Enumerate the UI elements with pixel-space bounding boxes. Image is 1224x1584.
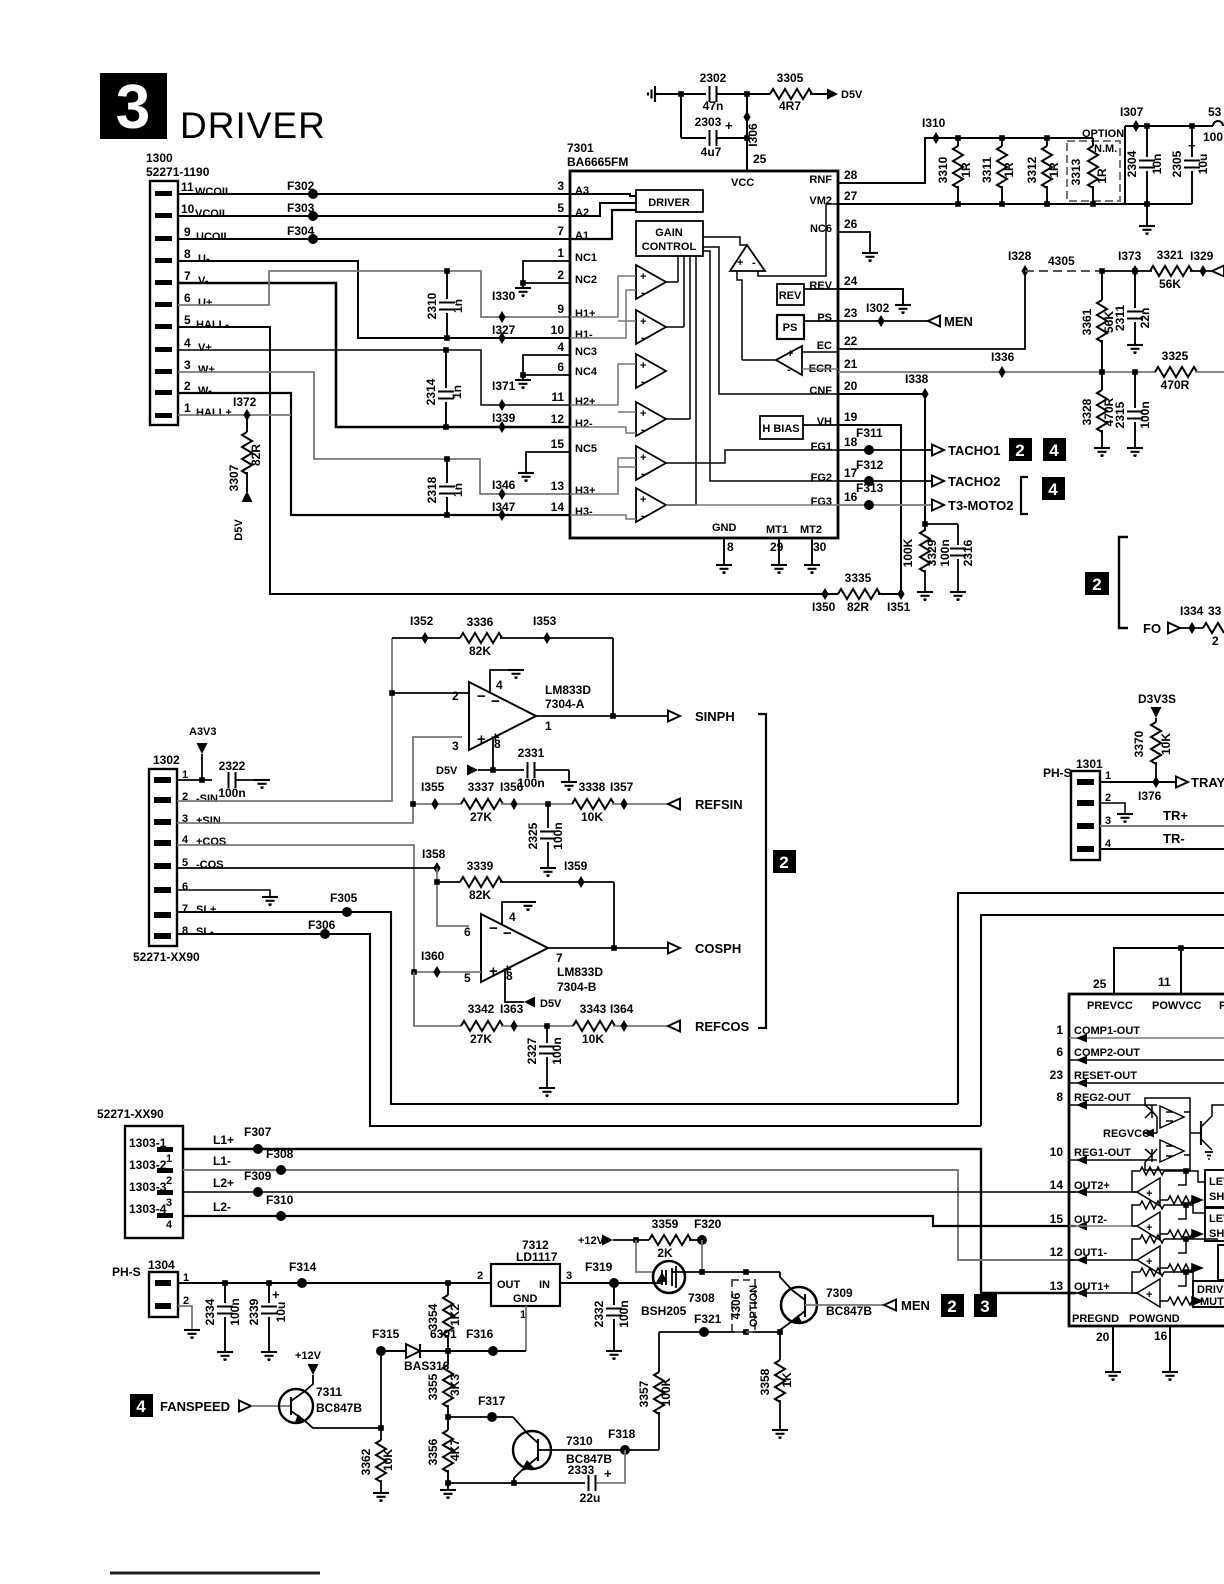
svg-text:H2-: H2-: [575, 418, 593, 430]
wire HALL+: [178, 414, 291, 416]
svg-text:100: 100: [1203, 130, 1223, 144]
LEVEL SHIFT box 1: [1205, 1170, 1224, 1207]
svg-text:3: 3: [116, 73, 150, 142]
svg-text:-: -: [752, 257, 756, 269]
marker 3: [974, 1294, 997, 1317]
node I306: [743, 111, 750, 123]
svg-text:I351: I351: [887, 600, 911, 614]
svg-text:SHI: SHI: [1209, 1191, 1224, 1203]
svg-text:2314: 2314: [424, 378, 438, 405]
capacitor 2314 1n: [445, 350, 447, 388]
svg-text:I358: I358: [422, 847, 446, 861]
CNF pin 20 wire down: [838, 394, 925, 524]
svg-text:3361: 3361: [1080, 308, 1094, 335]
svg-text:+: +: [640, 452, 646, 464]
svg-text:27K: 27K: [470, 1032, 492, 1046]
internal op-amp 3: [636, 354, 666, 388]
svg-text:PS: PS: [783, 322, 798, 334]
svg-text:11: 11: [551, 390, 564, 404]
svg-text:I334: I334: [1180, 604, 1204, 618]
svg-text:2302: 2302: [700, 71, 727, 85]
svg-text:8: 8: [1056, 1090, 1063, 1104]
svg-text:L1+: L1+: [213, 1133, 234, 1147]
SL+ wire: [177, 912, 958, 1104]
svg-text:52271-XX90: 52271-XX90: [133, 950, 200, 964]
svg-text:3343: 3343: [580, 1002, 607, 1016]
TR- wire: [1100, 848, 1224, 850]
svg-text:LM833D: LM833D: [545, 683, 591, 697]
svg-text:F305: F305: [330, 891, 358, 905]
svg-text:2331: 2331: [518, 746, 545, 760]
svg-text:+SIN: +SIN: [196, 815, 221, 827]
svg-text:-SIN: -SIN: [196, 793, 218, 805]
svg-text:I372: I372: [233, 395, 257, 409]
svg-text:NC4: NC4: [575, 366, 598, 378]
svg-text:LEV: LEV: [1209, 1213, 1224, 1225]
svg-text:A3: A3: [575, 185, 589, 197]
svg-text:DRIVER: DRIVER: [180, 105, 326, 146]
svg-text:OUT1-: OUT1-: [1074, 1247, 1107, 1259]
svg-text:10K: 10K: [581, 810, 603, 824]
NC5 ground: [526, 452, 570, 473]
F320 wire down to drain node: [701, 1240, 703, 1272]
resistor 3328 470R: [1101, 372, 1103, 390]
svg-text:10K: 10K: [381, 1449, 395, 1471]
supply D5V: [827, 89, 838, 100]
svg-text:2334: 2334: [203, 1298, 217, 1325]
supply +12V at 7311: [308, 1364, 319, 1375]
bracket TACHO2/T3-MOTO2: [1021, 477, 1028, 514]
VCC top rail: [1125, 125, 1213, 127]
wire W- to H3-: [178, 393, 570, 515]
svg-text:T3-MOTO2: T3-MOTO2: [948, 498, 1014, 513]
svg-text:H3+: H3+: [575, 485, 596, 497]
capacitor 2311 22n: [1134, 271, 1136, 308]
marker 4: [1043, 438, 1066, 461]
svg-text:VH: VH: [817, 416, 832, 428]
IC left pin names: [575, 185, 598, 518]
svg-text:9: 9: [184, 225, 191, 239]
svg-text:1: 1: [557, 246, 564, 260]
svg-text:52271-XX90: 52271-XX90: [97, 1107, 164, 1121]
pin1 wire to regulator: [178, 1282, 491, 1284]
internal op-amp 6: [636, 488, 666, 522]
internal op-amp 2: [636, 310, 666, 344]
OUT1- cell: [1069, 1235, 1218, 1274]
svg-text:7: 7: [184, 269, 191, 283]
svg-text:12: 12: [551, 412, 565, 426]
svg-text:10: 10: [551, 323, 565, 337]
resistor 3355 3K3: [443, 1365, 453, 1407]
right IC left pin numbers: [1050, 1023, 1064, 1293]
svg-text:MT1: MT1: [766, 524, 788, 536]
arrow at right edge: [1212, 266, 1224, 277]
svg-text:3321: 3321: [1157, 248, 1184, 262]
svg-text:3359: 3359: [652, 1217, 679, 1231]
capacitor 2315 100n: [1134, 372, 1136, 408]
svg-text:UCOIL: UCOIL: [196, 231, 231, 243]
A3V3 supply on pin 1: [177, 779, 212, 781]
svg-text:L1-: L1-: [213, 1154, 231, 1168]
svg-text:F315: F315: [372, 1327, 400, 1341]
svg-text:VCOIL: VCOIL: [195, 208, 229, 220]
svg-text:2: 2: [557, 268, 564, 282]
svg-text:−: −: [503, 925, 512, 942]
svg-text:4: 4: [509, 910, 516, 924]
svg-text:15: 15: [551, 437, 565, 451]
wire WCOIL to A3: [178, 193, 570, 195]
svg-text:PS: PS: [817, 312, 832, 324]
svg-text:52271-1190: 52271-1190: [146, 165, 210, 179]
svg-text:5: 5: [184, 313, 191, 327]
output SINPH: [536, 715, 668, 717]
svg-text:3328: 3328: [1080, 398, 1094, 425]
svg-text:8: 8: [506, 969, 513, 983]
svg-text:1n: 1n: [451, 483, 465, 497]
resistor 3370 10K: [1151, 722, 1161, 764]
resistor 3310 1R: [957, 138, 959, 146]
svg-text:D5V: D5V: [540, 998, 562, 1010]
IC left pin numbers: [551, 179, 565, 514]
resistor 3359 2K: [636, 1239, 649, 1241]
svg-text:3357: 3357: [637, 1380, 651, 1407]
svg-text:U+: U+: [198, 297, 212, 309]
svg-text:1301: 1301: [1076, 757, 1103, 771]
svg-text:MEN: MEN: [901, 1298, 930, 1313]
resistor 3313 1R (option): [1092, 138, 1094, 146]
svg-text:-: -: [641, 424, 645, 436]
GND pin 8 stub and ground: [723, 538, 725, 565]
collector wire to F318: [551, 1449, 659, 1451]
svg-text:23: 23: [1050, 1068, 1064, 1082]
svg-text:POWGND: POWGND: [1129, 1313, 1180, 1325]
EC comparator: [776, 346, 802, 375]
svg-text:4: 4: [557, 340, 564, 354]
svg-text:DRIV: DRIV: [1197, 1284, 1224, 1296]
svg-text:3337: 3337: [468, 780, 495, 794]
NC3/NC4 ground: [523, 355, 570, 375]
svg-text:6: 6: [464, 925, 471, 939]
pin2 ground: [178, 1306, 192, 1330]
node I376: [1152, 776, 1159, 788]
svg-text:2: 2: [1212, 634, 1219, 648]
svg-text:100K: 100K: [659, 1377, 673, 1406]
svg-text:7311: 7311: [316, 1385, 342, 1399]
FG1 pin 18 wire TACHO1: [838, 449, 932, 451]
marker 2: [1009, 438, 1032, 461]
svg-text:−: −: [489, 920, 498, 937]
svg-text:I359: I359: [564, 859, 588, 873]
svg-text:POWVCC: POWVCC: [1152, 1000, 1202, 1012]
svg-text:56K: 56K: [1159, 277, 1181, 291]
svg-text:I328: I328: [1008, 249, 1032, 263]
bracket group 2 for SINPH..REFCOS: [758, 714, 766, 1028]
svg-text:7301: 7301: [567, 141, 594, 155]
svg-text:F311: F311: [856, 426, 883, 440]
svg-text:4306: 4306: [729, 1292, 743, 1319]
svg-text:WCOIL: WCOIL: [195, 186, 232, 198]
svg-text:REGVCC: REGVCC: [1103, 1128, 1150, 1140]
svg-text:13: 13: [1050, 1279, 1064, 1293]
svg-text:100n: 100n: [617, 1300, 631, 1327]
svg-text:BAS316: BAS316: [404, 1359, 450, 1373]
right IC pin names: [1072, 1025, 1180, 1325]
svg-text:REV: REV: [779, 290, 802, 302]
svg-text:8: 8: [727, 540, 734, 554]
svg-text:I310: I310: [922, 116, 946, 130]
svg-text:I376: I376: [1138, 789, 1162, 803]
svg-text:I353: I353: [533, 614, 557, 628]
svg-text:L2-: L2-: [213, 1200, 231, 1214]
svg-text:6: 6: [1056, 1045, 1063, 1059]
svg-text:OUT1+: OUT1+: [1074, 1281, 1110, 1293]
svg-text:3329: 3329: [925, 539, 939, 566]
NC6 pin 26 ground: [838, 232, 870, 253]
FG3 pin 16 wire T3-MOTO2: [838, 504, 932, 506]
svg-text:8: 8: [184, 247, 191, 261]
resistor 3362 10K: [380, 1428, 382, 1440]
pin 8 D5V: [505, 970, 524, 1002]
svg-text:3K3: 3K3: [448, 1374, 462, 1396]
svg-text:D5V: D5V: [233, 519, 245, 541]
svg-text:NC1: NC1: [575, 252, 597, 264]
svg-text:F314: F314: [289, 1260, 317, 1274]
svg-text:-: -: [641, 376, 645, 388]
svg-text:3338: 3338: [579, 780, 606, 794]
svg-text:I360: I360: [421, 949, 445, 963]
svg-text:3362: 3362: [359, 1448, 373, 1475]
svg-text:3: 3: [452, 739, 459, 753]
svg-text:F319: F319: [585, 1260, 613, 1274]
L2- wire: [183, 1216, 1076, 1226]
svg-text:1: 1: [184, 401, 191, 415]
svg-text:V+: V+: [198, 342, 212, 354]
svg-text:U-: U-: [198, 253, 210, 265]
resistor 3312 1R: [1046, 138, 1048, 146]
svg-text:H1-: H1-: [575, 329, 593, 341]
gate wire from divider: [636, 1240, 654, 1272]
svg-text:+: +: [604, 1466, 612, 1481]
svg-text:I346: I346: [492, 478, 516, 492]
svg-text:VCC: VCC: [731, 177, 754, 189]
IC right pin numbers: [844, 168, 858, 504]
H BIAS block: [760, 416, 803, 439]
svg-text:I336: I336: [991, 350, 1015, 364]
svg-text:F310: F310: [266, 1193, 294, 1207]
svg-text:NC2: NC2: [575, 274, 597, 286]
svg-text:2339: 2339: [247, 1298, 261, 1325]
svg-text:RNF: RNF: [809, 174, 832, 186]
OUT1+ cell: [1069, 1268, 1202, 1307]
svg-text:2322: 2322: [219, 759, 246, 773]
resistor 33xx at edge: [1203, 623, 1224, 633]
feedback resistor 3336 82K: [392, 637, 460, 639]
svg-text:3356: 3356: [426, 1438, 440, 1465]
op-amp 7304-A: [469, 682, 536, 750]
marker 4: [130, 1394, 153, 1417]
svg-text:15: 15: [1050, 1212, 1064, 1226]
wire U- to H1-: [178, 261, 570, 338]
svg-text:10n: 10n: [1150, 154, 1164, 175]
svg-text:+: +: [1146, 1188, 1152, 1200]
REGVCC internal cell: [1145, 1098, 1224, 1170]
capacitor 2310 1n: [446, 271, 448, 299]
svg-text:20: 20: [844, 379, 858, 393]
svg-text:2311: 2311: [1113, 305, 1127, 331]
supply D5V at 3307: [242, 491, 253, 502]
svg-text:DRIVER: DRIVER: [648, 197, 690, 209]
svg-text:REG2-OUT: REG2-OUT: [1074, 1092, 1131, 1104]
svg-text:4K7: 4K7: [448, 1439, 462, 1461]
svg-text:TR-: TR-: [1163, 831, 1185, 846]
svg-text:100n: 100n: [938, 539, 952, 566]
svg-text:2: 2: [947, 1297, 956, 1316]
pin 6 ground: [177, 890, 270, 897]
resistor 3305 4R7: [770, 89, 812, 99]
svg-text:4u7: 4u7: [701, 145, 722, 159]
svg-text:I364: I364: [610, 1002, 634, 1016]
svg-text:3307: 3307: [227, 464, 241, 491]
svg-text:14: 14: [551, 500, 565, 514]
svg-text:TRAY: TRAY: [1191, 775, 1224, 790]
SL- wire: [177, 934, 981, 1126]
option jumper 4306: [743, 1269, 749, 1275]
svg-text:HALL+: HALL+: [196, 407, 232, 419]
svg-text:BC847B: BC847B: [316, 1401, 362, 1415]
svg-text:4R7: 4R7: [779, 99, 801, 113]
svg-text:GND: GND: [712, 522, 737, 534]
svg-text:IN: IN: [539, 1279, 550, 1291]
svg-text:82K: 82K: [469, 644, 491, 658]
ground left of 2302 (rotated): [648, 86, 659, 102]
DRIVE MUTE box: [1193, 1281, 1224, 1307]
svg-text:REFSIN: REFSIN: [695, 797, 743, 812]
internal op-amp 1: [636, 265, 666, 299]
svg-text:2333: 2333: [568, 1463, 595, 1477]
svg-text:7310: 7310: [566, 1434, 593, 1448]
svg-text:MEN: MEN: [944, 314, 973, 329]
svg-text:OPTION: OPTION: [748, 1285, 760, 1327]
capacitor 2318 1n: [446, 459, 448, 483]
svg-text:L2+: L2+: [213, 1176, 234, 1190]
internal op-amp 5: [636, 446, 666, 480]
svg-text:4305: 4305: [1048, 254, 1075, 268]
svg-text:100n: 100n: [551, 822, 565, 849]
svg-text:+: +: [640, 408, 646, 420]
svg-text:3335: 3335: [845, 571, 872, 585]
svg-text:+COS: +COS: [196, 836, 226, 848]
svg-text:22u: 22u: [580, 1491, 601, 1505]
wire from ground to cap 2302: [659, 93, 706, 95]
wire VM2 pin27 rail: [838, 126, 1125, 204]
svg-text:NC3: NC3: [575, 346, 597, 358]
svg-text:2: 2: [166, 1175, 172, 1187]
footer line: [110, 1572, 320, 1575]
L1+ wire: [183, 1149, 1076, 1293]
svg-text:10K: 10K: [582, 1032, 604, 1046]
wires around top op-amp: [703, 237, 747, 245]
L1- wire: [183, 1170, 1076, 1260]
svg-text:10K: 10K: [1159, 733, 1173, 755]
transistor 7310 BC847B: [513, 1431, 551, 1469]
svg-text:3358: 3358: [758, 1368, 772, 1395]
svg-text:4: 4: [184, 336, 191, 350]
svg-text:2: 2: [1092, 575, 1101, 594]
svg-text:10: 10: [181, 202, 195, 216]
PS pin 23 wire to MEN: [838, 320, 928, 322]
resistor 3357 100K: [658, 1412, 660, 1450]
MT1 pin 29 stub and ground: [778, 538, 780, 565]
emitter ground rail: [448, 1482, 585, 1484]
L2+ wire: [183, 1191, 1076, 1193]
svg-text:1R: 1R: [1002, 162, 1016, 178]
svg-text:I330: I330: [492, 289, 516, 303]
svg-text:I363: I363: [500, 1002, 524, 1016]
svg-text:7308: 7308: [688, 1291, 715, 1305]
pin4 ground of 7304-B: [502, 902, 528, 924]
svg-text:3313: 3313: [1069, 158, 1083, 185]
jumper 4305 dashed: [1025, 270, 1102, 272]
non-inverting input I360: [414, 971, 481, 973]
inductor 53xx at right edge: [1213, 121, 1223, 126]
svg-text:4: 4: [1048, 480, 1058, 499]
internal vertical wires from gain control: [666, 256, 696, 505]
capacitor 2302 47n: [710, 86, 717, 102]
capacitor 2332 100n: [613, 1283, 615, 1305]
capacitor 2327 100n: [546, 1026, 548, 1043]
TRAY wire: [1100, 781, 1176, 783]
svg-text:6: 6: [184, 291, 191, 305]
svg-text:+: +: [640, 316, 646, 328]
svg-text:19: 19: [844, 410, 858, 424]
internal op-amp 4: [636, 402, 666, 436]
svg-text:7304-A: 7304-A: [545, 697, 585, 711]
svg-text:H1+: H1+: [575, 308, 596, 320]
svg-text:33: 33: [1208, 604, 1222, 618]
svg-text:D3V3S: D3V3S: [1138, 692, 1176, 706]
pin arrows and internal stubs: [1069, 1038, 1224, 1160]
svg-text:LD1117: LD1117: [516, 1250, 558, 1264]
svg-text:3: 3: [980, 1297, 989, 1316]
svg-text:COSPH: COSPH: [695, 941, 741, 956]
svg-text:F306: F306: [308, 918, 336, 932]
svg-text:3336: 3336: [467, 615, 494, 629]
svg-text:I355: I355: [421, 780, 445, 794]
MEN arrow: [884, 1300, 896, 1311]
box fragment at edge: [1218, 1245, 1224, 1280]
svg-text:−: −: [491, 693, 500, 710]
rail to 2316: [925, 523, 958, 525]
svg-text:F321: F321: [694, 1312, 722, 1326]
capacitor 2305 10u: [1191, 126, 1193, 157]
MT2 pin 30 stub and ground: [811, 538, 813, 565]
svg-text:1: 1: [166, 1153, 172, 1165]
svg-text:I302: I302: [866, 301, 890, 315]
svg-text:BC847B: BC847B: [826, 1304, 872, 1318]
marker 2: [941, 1294, 964, 1317]
pin4 ground of 7304-A: [490, 670, 516, 692]
op-amp 7304-B: [481, 914, 548, 982]
svg-text:F307: F307: [244, 1125, 272, 1139]
EC pin 22 wire: [838, 271, 1025, 349]
CNF internal wire: [703, 247, 838, 394]
svg-text:A1: A1: [575, 230, 589, 242]
svg-text:3305: 3305: [777, 71, 804, 85]
svg-text:-: -: [641, 510, 645, 522]
feedback path 3339 82K: [437, 868, 469, 926]
svg-text:10: 10: [1050, 1145, 1064, 1159]
svg-text:1304: 1304: [148, 1258, 175, 1272]
